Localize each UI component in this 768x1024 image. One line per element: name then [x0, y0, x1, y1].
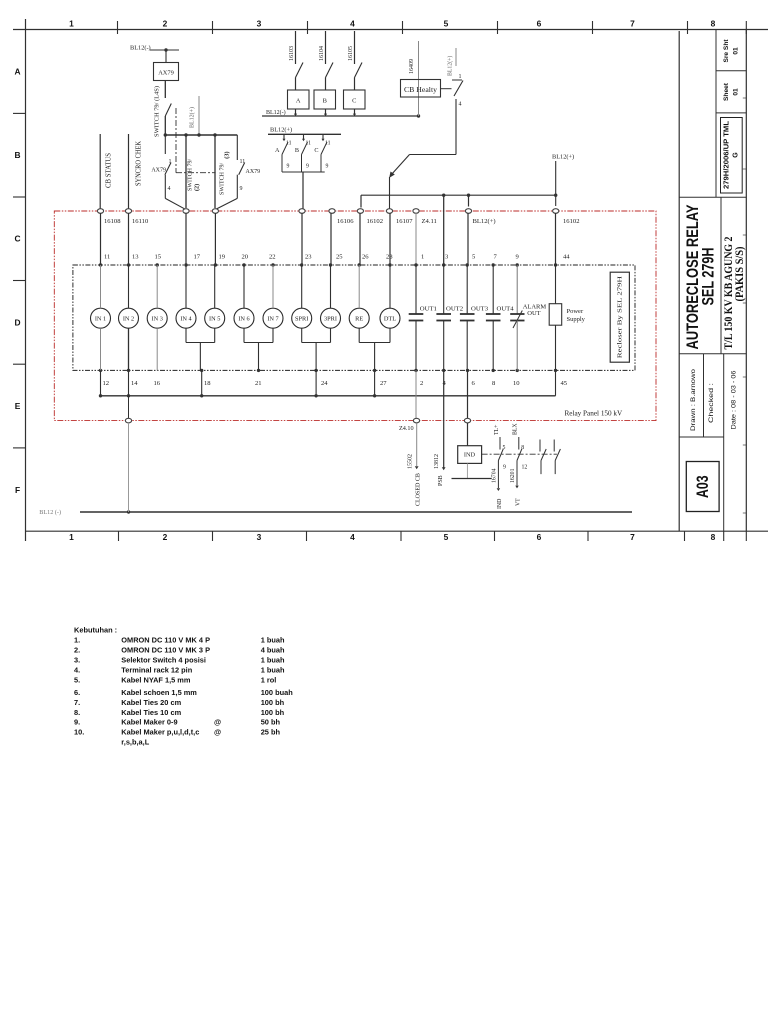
- svg-text:16106: 16106: [337, 218, 354, 225]
- svg-text:Kabel NYAF 1,5 mm: Kabel NYAF 1,5 mm: [121, 675, 191, 684]
- svg-text:Kabel Ties 20 cm: Kabel Ties 20 cm: [121, 698, 181, 707]
- svg-text:SWITCH 79/: SWITCH 79/: [220, 163, 226, 195]
- svg-text:AX79: AX79: [151, 168, 166, 174]
- svg-text:Terminal rack 12 pin: Terminal rack 12 pin: [121, 665, 192, 674]
- svg-text:9: 9: [240, 186, 243, 192]
- svg-text:9: 9: [503, 465, 506, 471]
- svg-text:16107: 16107: [396, 218, 413, 225]
- svg-text:BL12(+): BL12(+): [552, 154, 574, 161]
- svg-text:6.: 6.: [74, 688, 80, 697]
- svg-text:Checked :: Checked :: [708, 383, 715, 423]
- svg-text:7: 7: [630, 532, 635, 542]
- svg-text:1: 1: [69, 532, 74, 542]
- svg-text:(PAKIS S/S): (PAKIS S/S): [732, 247, 746, 302]
- svg-text:Power: Power: [567, 308, 584, 315]
- svg-text:16105: 16105: [348, 46, 354, 61]
- svg-text:1 rol: 1 rol: [261, 675, 277, 684]
- svg-text:IND: IND: [497, 499, 503, 509]
- svg-text:5: 5: [444, 19, 449, 29]
- svg-text:A03: A03: [694, 475, 712, 498]
- svg-text:2.: 2.: [74, 645, 80, 654]
- svg-text:26: 26: [362, 254, 369, 261]
- svg-text:Sre Sht: Sre Sht: [723, 39, 730, 63]
- svg-text:E: E: [15, 401, 21, 411]
- svg-text:BL12(+): BL12(+): [189, 107, 196, 128]
- svg-text:B: B: [323, 98, 327, 105]
- svg-text:21: 21: [255, 380, 262, 387]
- svg-text:AX79: AX79: [158, 70, 174, 77]
- svg-text:9: 9: [287, 164, 290, 170]
- svg-text:27: 27: [380, 380, 387, 387]
- svg-text:SPRI: SPRI: [295, 316, 308, 323]
- svg-text:OMRON DC 110 V MK 4 P: OMRON DC 110 V MK 4 P: [121, 635, 210, 644]
- svg-text:3PRI: 3PRI: [324, 316, 337, 323]
- svg-text:CB STATUS: CB STATUS: [105, 153, 113, 188]
- svg-text:5.: 5.: [74, 675, 80, 684]
- svg-text:D: D: [14, 317, 20, 327]
- svg-text:16108: 16108: [104, 218, 121, 225]
- svg-text:4: 4: [350, 19, 355, 29]
- svg-text:3: 3: [257, 532, 262, 542]
- svg-text:RE: RE: [355, 316, 363, 323]
- svg-text:16103: 16103: [289, 46, 295, 61]
- svg-text:25 bh: 25 bh: [261, 728, 281, 737]
- svg-text:C: C: [314, 147, 318, 154]
- svg-text:1 buah: 1 buah: [261, 665, 285, 674]
- svg-text:6: 6: [537, 19, 542, 29]
- svg-text:Relay Panel 150 kV: Relay Panel 150 kV: [565, 410, 623, 418]
- svg-text:4: 4: [350, 532, 355, 542]
- svg-text:2: 2: [163, 532, 168, 542]
- svg-text:2: 2: [163, 19, 168, 29]
- svg-text:SEL 279H: SEL 279H: [699, 248, 718, 306]
- svg-text:8: 8: [711, 532, 716, 542]
- svg-text:5: 5: [444, 532, 449, 542]
- svg-text:13812: 13812: [434, 454, 440, 469]
- svg-text:(3): (3): [224, 151, 231, 158]
- svg-text:9.: 9.: [74, 718, 80, 727]
- svg-text:OUT1: OUT1: [420, 305, 437, 312]
- svg-text:16704: 16704: [491, 468, 497, 483]
- svg-text:BL12(+): BL12(+): [473, 218, 496, 225]
- svg-text:4: 4: [168, 186, 171, 192]
- svg-text:BL12(+): BL12(+): [270, 127, 292, 134]
- svg-text:Kabel Ties 10 cm: Kabel Ties 10 cm: [121, 708, 181, 717]
- svg-text:16110: 16110: [132, 218, 149, 225]
- svg-text:1 buah: 1 buah: [261, 655, 285, 664]
- svg-text:VT: VT: [515, 498, 521, 506]
- svg-text:1: 1: [69, 19, 74, 29]
- svg-text:10.: 10.: [74, 728, 84, 737]
- svg-text:01: 01: [733, 47, 740, 55]
- svg-text:Kabel Maker p,u,l,d,t,c: Kabel Maker p,u,l,d,t,c: [121, 728, 199, 737]
- svg-text:8.: 8.: [74, 708, 80, 717]
- svg-text:Sheet: Sheet: [723, 82, 730, 101]
- svg-text:Recloser By SEL 279H: Recloser By SEL 279H: [617, 276, 624, 358]
- svg-text:1.: 1.: [74, 635, 80, 644]
- svg-text:CB Healty: CB Healty: [404, 86, 438, 94]
- svg-text:OUT: OUT: [527, 310, 540, 317]
- svg-text:SWITCH 79/ (L4S): SWITCH 79/ (L4S): [154, 86, 161, 137]
- svg-text:100 bh: 100 bh: [261, 708, 285, 717]
- svg-text:BLX: BLX: [512, 423, 518, 435]
- svg-text:CLOSED CB: CLOSED CB: [416, 473, 422, 506]
- svg-text:Z4.10: Z4.10: [399, 425, 414, 432]
- svg-text:PSB: PSB: [438, 475, 444, 486]
- svg-text:A: A: [14, 67, 20, 77]
- svg-text:IN 2: IN 2: [123, 316, 134, 323]
- svg-text:G: G: [733, 152, 740, 158]
- svg-text:OUT2: OUT2: [446, 305, 463, 312]
- svg-text:BL12(-): BL12(-): [266, 109, 286, 116]
- svg-text:13: 13: [132, 254, 139, 261]
- svg-text:44: 44: [563, 254, 570, 261]
- svg-text:Kebutuhan :: Kebutuhan :: [74, 625, 117, 634]
- svg-text:A: A: [296, 98, 301, 105]
- svg-text:DTL: DTL: [384, 316, 396, 323]
- svg-text:IN 5: IN 5: [209, 316, 220, 323]
- svg-text:IN 7: IN 7: [267, 316, 278, 323]
- svg-text:11: 11: [104, 254, 110, 261]
- svg-text:1: 1: [421, 254, 424, 261]
- svg-text:IND: IND: [464, 452, 476, 459]
- svg-text:1: 1: [459, 74, 462, 80]
- svg-text:15: 15: [155, 254, 162, 261]
- svg-text:9: 9: [306, 164, 309, 170]
- svg-text:Kabel Maker 0-9: Kabel Maker 0-9: [121, 718, 177, 727]
- svg-text:01: 01: [733, 88, 740, 96]
- svg-text:r,s,b,a,L: r,s,b,a,L: [121, 738, 149, 747]
- svg-text:TL+: TL+: [494, 425, 500, 435]
- svg-text:4.: 4.: [74, 665, 80, 674]
- svg-text:Supply: Supply: [567, 316, 586, 323]
- svg-text:10: 10: [513, 380, 520, 387]
- svg-text:3: 3: [257, 19, 262, 29]
- svg-text:AX79: AX79: [246, 169, 261, 175]
- svg-text:16104: 16104: [319, 46, 325, 61]
- svg-text:OMRON DC 110 V MK 3 P: OMRON DC 110 V MK 3 P: [121, 645, 210, 654]
- svg-text:Selektor Switch 4 posisi: Selektor Switch 4 posisi: [121, 655, 206, 664]
- svg-text:BL12 (-): BL12 (-): [39, 509, 61, 516]
- svg-text:SYNCRO CHEK: SYNCRO CHEK: [135, 140, 143, 186]
- svg-text:C: C: [14, 234, 20, 244]
- svg-text:7: 7: [630, 19, 635, 29]
- svg-text:6: 6: [537, 532, 542, 542]
- svg-text:14: 14: [131, 380, 138, 387]
- svg-text:Z4.11: Z4.11: [422, 218, 437, 225]
- svg-text:2: 2: [420, 380, 423, 387]
- svg-text:@: @: [214, 718, 221, 727]
- svg-text:7.: 7.: [74, 698, 80, 707]
- svg-text:9: 9: [326, 164, 329, 170]
- svg-text:A: A: [275, 147, 280, 154]
- svg-text:25: 25: [336, 254, 343, 261]
- svg-text:F: F: [15, 485, 20, 495]
- svg-text:BL12(-): BL12(-): [130, 45, 151, 52]
- svg-text:Kabel schoen 1,5 mm: Kabel schoen 1,5 mm: [121, 688, 197, 697]
- svg-text:IN 3: IN 3: [152, 316, 163, 323]
- svg-text:19: 19: [219, 254, 226, 261]
- svg-text:4 buah: 4 buah: [261, 645, 285, 654]
- svg-text:8: 8: [711, 19, 716, 29]
- svg-text:IN 1: IN 1: [95, 316, 106, 323]
- svg-text:B: B: [14, 150, 20, 160]
- svg-text:24: 24: [321, 380, 328, 387]
- svg-text:28: 28: [386, 254, 393, 261]
- svg-text:Drawn : B.arnowo: Drawn : B.arnowo: [690, 369, 697, 431]
- svg-text:12: 12: [103, 380, 110, 387]
- svg-text:(2): (2): [194, 184, 201, 191]
- svg-text:C: C: [352, 98, 356, 105]
- svg-text:15502: 15502: [408, 454, 414, 469]
- svg-text:16102: 16102: [563, 218, 579, 225]
- svg-text:100 bh: 100 bh: [261, 698, 285, 707]
- svg-text:@: @: [214, 728, 221, 737]
- svg-text:279H/2006/UP TML: 279H/2006/UP TML: [724, 120, 731, 189]
- svg-text:Date : 08 - 03 - 06: Date : 08 - 03 - 06: [731, 370, 738, 429]
- svg-text:12: 12: [522, 465, 528, 471]
- svg-text:SWITCH 79/: SWITCH 79/: [188, 159, 194, 191]
- svg-text:1 buah: 1 buah: [261, 635, 285, 644]
- svg-text:16409: 16409: [409, 59, 415, 74]
- svg-text:45: 45: [561, 380, 568, 387]
- svg-text:23: 23: [305, 254, 312, 261]
- svg-text:IN 6: IN 6: [238, 316, 249, 323]
- svg-text:17: 17: [194, 254, 201, 261]
- svg-text:50 bh: 50 bh: [261, 718, 281, 727]
- svg-text:4: 4: [459, 102, 462, 108]
- svg-text:100 buah: 100 buah: [261, 688, 294, 697]
- svg-text:22: 22: [269, 254, 276, 261]
- svg-text:16201: 16201: [510, 468, 516, 483]
- svg-text:16102: 16102: [367, 218, 383, 225]
- svg-text:OUT4: OUT4: [497, 305, 515, 312]
- svg-text:18: 18: [204, 380, 211, 387]
- svg-text:IN 4: IN 4: [180, 316, 192, 323]
- svg-text:B: B: [295, 147, 299, 154]
- svg-text:3.: 3.: [74, 655, 80, 664]
- svg-text:20: 20: [242, 254, 249, 261]
- svg-text:OUT3: OUT3: [471, 305, 489, 312]
- svg-text:BL12(+): BL12(+): [447, 56, 454, 76]
- svg-text:16: 16: [154, 380, 161, 387]
